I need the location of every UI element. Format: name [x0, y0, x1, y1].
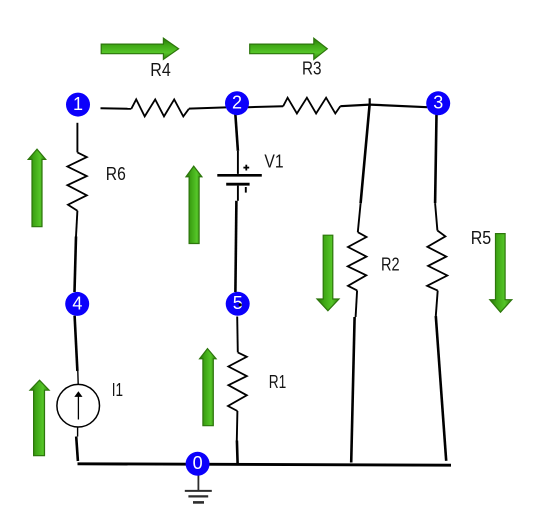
current arrow R5 (down)	[490, 234, 512, 313]
battery V1 plus sign	[243, 167, 249, 169]
wire I1 top lead	[77, 371, 79, 385]
wire R2 bottom lead	[356, 290, 358, 317]
current arrow R4 (right)	[101, 38, 178, 59]
wire R5 to bottom	[436, 316, 446, 461]
battery V1 top plate	[217, 174, 261, 177]
svg-text:R2: R2	[381, 255, 400, 275]
ground	[185, 475, 212, 503]
junction stub	[369, 98, 371, 105]
current arrow I1 (up)	[30, 380, 49, 455]
svg-text:R6: R6	[106, 164, 126, 184]
resistor R3	[283, 98, 340, 114]
svg-text:2: 2	[232, 93, 242, 113]
svg-text:5: 5	[233, 293, 243, 313]
current arrow R2 (down)	[317, 235, 339, 311]
wire R5 bottom lead	[436, 291, 438, 316]
wire R1 to bottom	[236, 441, 239, 464]
node 5	[226, 292, 250, 316]
resistor R5	[427, 231, 447, 291]
svg-text:1: 1	[73, 94, 83, 114]
wire node1 down	[76, 123, 78, 153]
current source I1	[57, 384, 100, 427]
current arrow R6 (up)	[28, 149, 46, 227]
wire node5 down	[236, 317, 239, 353]
node 4	[65, 292, 89, 316]
wire node1 to R4	[101, 107, 132, 110]
node 0	[186, 452, 210, 476]
wire V1 bottom lead	[237, 186, 239, 201]
wire node3 down	[435, 108, 437, 203]
resistor R2	[348, 232, 367, 290]
svg-text:R5: R5	[471, 228, 492, 248]
wire R4 to node2	[189, 107, 226, 108]
wire I1 bottom lead	[77, 427, 79, 437]
bottom wire	[78, 464, 452, 465]
svg-text:R1: R1	[269, 372, 287, 392]
svg-text:0: 0	[193, 453, 203, 473]
wire R5 top lead	[435, 203, 437, 230]
svg-text:4: 4	[72, 293, 82, 313]
svg-text:V1: V1	[264, 151, 283, 171]
wire R3 to junction	[340, 105, 369, 107]
wire node2 to R3	[248, 105, 283, 108]
node 3	[426, 91, 450, 115]
wire V1 to node5	[235, 201, 236, 292]
wire node2 down	[235, 112, 238, 151]
wire junction to R2	[361, 105, 370, 204]
wire R2 to bottom	[351, 317, 354, 463]
svg-text:R3: R3	[302, 59, 322, 79]
wire V1 top lead	[237, 151, 239, 174]
resistor R1	[228, 352, 247, 411]
wire junction to node3	[370, 105, 427, 108]
wire node4 down	[75, 316, 78, 371]
svg-text:I1: I1	[112, 380, 123, 400]
battery V1 bottom plate	[226, 183, 249, 186]
wire R1 bottom lead	[236, 411, 239, 441]
wire I1 to bottom	[76, 437, 78, 462]
current arrow R1 (up)	[200, 349, 217, 426]
svg-text:3: 3	[433, 93, 443, 113]
resistor R6	[67, 152, 86, 210]
battery V1 minus tick	[245, 187, 247, 193]
wire R6 lead bottom	[76, 211, 77, 237]
current arrow R3 (right)	[250, 38, 328, 59]
resistor R4	[131, 99, 189, 116]
wire R6 to node4	[75, 237, 77, 293]
node 2	[225, 91, 249, 115]
wire R2 top lead	[358, 203, 361, 232]
node 1	[66, 93, 90, 117]
current arrow V1 (up)	[186, 166, 202, 243]
svg-text:R4: R4	[150, 60, 171, 80]
